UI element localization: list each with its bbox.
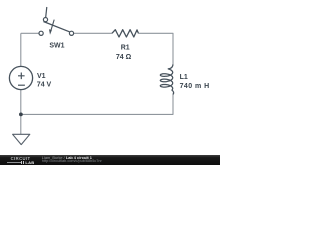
wire: top-left riser from top rail down to V1 top bbox=[20, 33, 22, 66]
svg-text:740 m H: 740 m H bbox=[180, 83, 210, 90]
node: junction dot at V1/ground/bottom rail bbox=[19, 113, 23, 117]
logo underline wire bbox=[7, 161, 21, 164]
switch SW1 top throw terminal circle bbox=[43, 18, 47, 22]
V1 minus sign bbox=[18, 84, 25, 86]
svg-text:74 V: 74 V bbox=[37, 81, 52, 88]
wire: top rail from R1 right lead to top-right corner, down to L1 top bbox=[138, 33, 173, 64]
footer url line bbox=[42, 159, 102, 163]
svg-text:R1: R1 bbox=[121, 45, 130, 52]
inductor L1 coil bbox=[160, 64, 173, 94]
wire: top rail from left corner to SW1 left terminal bbox=[21, 32, 39, 34]
svg-text:L1: L1 bbox=[180, 74, 188, 81]
resistor R1 bbox=[112, 30, 138, 37]
wire: right rail from L1 bottom to bottom-right corner, left to junction bbox=[21, 94, 173, 115]
svg-text:V1: V1 bbox=[37, 73, 46, 80]
V1 plus sign bbox=[18, 73, 25, 80]
wire: top rail from SW1 right terminal to R1 left lead bbox=[74, 32, 112, 34]
switch SW1 right terminal circle bbox=[69, 31, 73, 35]
switch SW1 lever bbox=[43, 22, 69, 32]
wire: ground stem below junction bbox=[20, 114, 22, 134]
CircuitLab logo wordmark bbox=[11, 156, 31, 161]
switch SW1 toggle arrow bbox=[51, 20, 54, 31]
svg-text:74 Ω: 74 Ω bbox=[116, 54, 132, 61]
logo LAB text bbox=[25, 160, 34, 165]
svg-text:SW1: SW1 bbox=[49, 42, 64, 49]
wire: V1 bottom lead down to bottom rail junction bbox=[20, 90, 22, 115]
footer bar bbox=[0, 155, 220, 165]
footer title line bbox=[42, 155, 92, 160]
switch SW1 left terminal circle bbox=[39, 31, 43, 35]
switch SW1 top throw stub bbox=[46, 7, 47, 17]
ground bbox=[13, 134, 30, 144]
voltage source V1 circle bbox=[9, 66, 32, 89]
